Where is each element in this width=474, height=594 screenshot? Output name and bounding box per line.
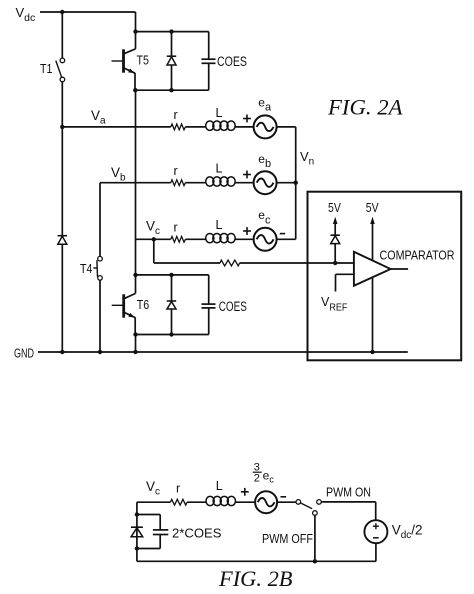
op-amp U1 comparator	[354, 252, 391, 286]
transistor T5	[112, 49, 136, 73]
svg-text:GND: GND	[14, 347, 34, 361]
node junction T6 collector rail	[133, 273, 137, 277]
svg-text:FIG. 2B: FIG. 2B	[218, 566, 293, 591]
wire comparator output	[391, 268, 409, 270]
inductor L phase c	[206, 233, 236, 242]
svg-text:FIG. 2A: FIG. 2A	[327, 94, 403, 119]
wire 5V pullup column	[372, 223, 374, 353]
transistor T6	[112, 294, 136, 317]
wire T4 column lower	[99, 280, 101, 352]
svg-text:r: r	[174, 221, 178, 235]
svg-text:5V: 5V	[328, 200, 341, 215]
label L phase a	[216, 106, 223, 120]
node junction diode D6 top	[169, 273, 173, 277]
label minus ec	[280, 233, 285, 235]
diode D6 antiparallel	[167, 275, 176, 335]
label 2*COES	[172, 527, 222, 541]
label plus eb	[243, 171, 251, 179]
wire Vb row mid	[185, 182, 205, 184]
label Vc fig2a	[146, 219, 160, 238]
label GND	[14, 347, 34, 361]
switch T4	[93, 256, 102, 280]
node junction T6 emitter rail	[133, 332, 137, 336]
diode D5 antiparallel	[167, 32, 176, 91]
svg-text:ec: ec	[258, 208, 271, 226]
node junction diode D5 top	[169, 29, 173, 33]
source eb	[254, 171, 277, 194]
node junction Va-T1	[60, 125, 64, 129]
svg-text:ec: ec	[263, 469, 275, 485]
wire Vc drop	[153, 239, 155, 263]
node junction input-diode	[333, 261, 337, 265]
node junction T5-collector rail	[133, 29, 137, 33]
wire ea to Vn corner	[277, 126, 296, 128]
svg-text:L: L	[216, 479, 223, 493]
label 5V left	[328, 200, 341, 215]
resistor comparator input	[220, 260, 240, 266]
arrow 5V right	[370, 217, 375, 224]
wire Vn column	[295, 127, 297, 239]
wire Vdc drop to T5 rail	[135, 12, 137, 32]
svg-text:Vc: Vc	[146, 219, 160, 238]
wire 2B top mid	[187, 501, 206, 503]
label 5V right	[366, 200, 379, 215]
wire Vdc top rail	[40, 11, 136, 13]
wire T1 column upper	[61, 12, 63, 58]
wire T6 bottom rail	[135, 334, 209, 336]
label L phase c	[216, 218, 223, 232]
source three-halves ec	[255, 491, 277, 513]
wire source to switch	[277, 501, 296, 503]
wire Vc row mid	[185, 238, 205, 240]
svg-text:L: L	[216, 218, 223, 232]
node junction T5 emitter rail	[133, 88, 137, 92]
svg-text:Vdc/2: Vdc/2	[392, 523, 423, 542]
label Vn	[300, 149, 314, 168]
node junction Vc tap	[152, 237, 156, 241]
node junction Vn-eb	[294, 181, 298, 185]
label r phase c	[174, 221, 178, 235]
wire Vb row	[100, 182, 171, 184]
switch PWM	[296, 500, 321, 516]
label L phase b	[216, 162, 223, 176]
label T4	[80, 262, 92, 276]
label Vref	[321, 295, 347, 314]
label Vc fig2b	[146, 479, 160, 498]
label minus 2B source	[281, 496, 287, 498]
node junction GND-T6	[133, 350, 137, 354]
svg-text:r: r	[174, 108, 178, 122]
capacitor COES lower	[202, 275, 216, 335]
label COMPARATOR	[380, 247, 455, 262]
svg-text:PWM ON: PWM ON	[326, 485, 371, 499]
label plus 2B source	[241, 488, 249, 496]
svg-text:Va: Va	[91, 108, 106, 127]
svg-text:r: r	[174, 164, 178, 178]
inductor L phase a	[206, 121, 236, 130]
inductor L fig2b	[206, 496, 235, 505]
label r phase b	[174, 164, 178, 178]
resistor r fig2b	[171, 499, 188, 505]
capacitor COES upper	[202, 32, 216, 91]
wire Vref lead	[336, 274, 354, 291]
wire Vc row left	[136, 238, 171, 240]
label T1	[40, 62, 52, 76]
resistor r phase a	[171, 124, 186, 130]
wire 2B to source	[235, 501, 255, 503]
label r fig2b	[176, 482, 180, 496]
svg-text:Vc: Vc	[146, 479, 160, 498]
node junction cap top	[135, 512, 139, 516]
wire Va row mid	[185, 126, 205, 128]
label plus ec	[243, 227, 251, 235]
svg-text:L: L	[216, 162, 223, 176]
label plus ea	[243, 115, 251, 123]
svg-text:T1: T1	[40, 62, 52, 76]
wire GND rail	[38, 351, 408, 353]
svg-text:2: 2	[254, 473, 260, 485]
label Vdc/2	[392, 523, 423, 542]
label FIG. 2A	[327, 94, 403, 119]
diode D7 clamp 5V	[331, 235, 340, 263]
svg-text:Vdc: Vdc	[16, 5, 36, 24]
wire Va row to source	[234, 126, 253, 128]
svg-text:COES: COES	[219, 299, 247, 314]
svg-text:COMPARATOR: COMPARATOR	[380, 247, 455, 262]
wire 2B left column	[136, 502, 138, 561]
label ea	[258, 96, 272, 114]
node junction diode D5 bottom	[169, 88, 173, 92]
label ec	[258, 208, 271, 226]
label PWM ON	[326, 485, 371, 499]
label L fig2b	[216, 479, 223, 493]
label T6	[137, 298, 149, 312]
wire T4 column upper	[99, 183, 101, 257]
node junction Vdc-T1	[60, 10, 64, 14]
box comparator block	[308, 192, 462, 361]
svg-text:eb: eb	[258, 152, 271, 170]
node junction diode D6 bottom	[169, 332, 173, 336]
node junction PWM OFF-rail	[313, 559, 317, 563]
svg-text:T6: T6	[137, 298, 149, 312]
label T5	[137, 54, 149, 68]
wire ec to Vn bottom	[277, 238, 296, 240]
wire phase column	[135, 90, 137, 275]
label Vdc	[16, 5, 36, 24]
wire T5 collector lead	[124, 32, 136, 54]
svg-text:VREF: VREF	[321, 295, 347, 314]
wire T5 top rail	[136, 31, 209, 33]
source ec	[254, 228, 277, 251]
node junction 5V supply rail	[370, 350, 374, 354]
label r phase a	[174, 108, 178, 122]
svg-text:5V: 5V	[366, 200, 379, 215]
label three-halves ec	[253, 461, 275, 484]
wire Vdc2 to rail	[375, 543, 377, 561]
wire 2B top left	[137, 501, 171, 503]
node junction GND-T1	[60, 350, 64, 354]
wire PWM OFF drop	[314, 515, 316, 561]
wire switch to Vdc2	[321, 502, 376, 520]
label COES upper	[217, 54, 247, 69]
resistor r phase c	[171, 236, 186, 242]
wire T6 emitter lead	[134, 317, 136, 334]
wire T5 emitter lead	[134, 73, 136, 90]
wire comparator input right	[240, 262, 354, 264]
label eb	[258, 152, 271, 170]
label Va	[91, 108, 106, 127]
source ea	[254, 115, 277, 138]
wire T6 top rail	[136, 274, 209, 276]
label COES lower	[219, 299, 247, 314]
wire Vb row to source	[234, 182, 253, 184]
svg-text:COES: COES	[217, 54, 247, 69]
label FIG. 2B	[218, 566, 293, 591]
svg-text:2*COES: 2*COES	[172, 527, 222, 541]
svg-text:ea: ea	[258, 96, 272, 114]
node junction cap bottom	[135, 546, 139, 550]
wire T6 to GND	[135, 335, 137, 353]
wire Va row left	[62, 126, 171, 128]
label PWM OFF	[262, 532, 313, 546]
arrow 5V left	[333, 217, 338, 235]
svg-text:Vn: Vn	[300, 149, 314, 168]
wire T5 bottom rail	[135, 89, 209, 91]
diode D1 clamp	[58, 236, 67, 352]
wire Vc row to source	[234, 238, 253, 240]
svg-text:PWM OFF: PWM OFF	[262, 532, 313, 546]
wire eb to Vn	[277, 182, 296, 184]
inductor L phase b	[206, 177, 236, 186]
source Vdc/2	[364, 520, 387, 543]
wire T1 column mid	[61, 127, 63, 236]
resistor r phase b	[171, 180, 186, 186]
capacitor 2*COES	[137, 515, 168, 549]
svg-text:r: r	[176, 482, 180, 496]
wire T6 collector lead	[124, 275, 136, 299]
switch T1	[56, 58, 65, 82]
wire comparator input left	[154, 262, 220, 264]
svg-text:L: L	[216, 106, 223, 120]
wire 2B bottom rail	[137, 560, 376, 562]
svg-text:T5: T5	[137, 54, 149, 68]
svg-text:T4: T4	[80, 262, 92, 276]
label Vb	[111, 165, 126, 184]
diode D8 clamp 2B	[131, 527, 143, 537]
node junction GND-T4	[98, 350, 102, 354]
wire T1 column to Va	[61, 82, 63, 127]
svg-text:3: 3	[254, 461, 260, 473]
svg-text:Vb: Vb	[111, 165, 126, 184]
